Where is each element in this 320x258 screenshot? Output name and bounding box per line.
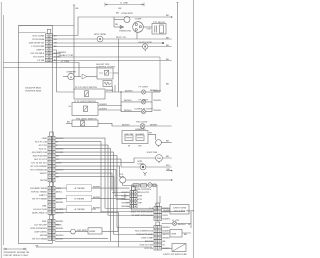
svg-text:BK/WH: BK/WH (163, 237, 171, 240)
svg-text:OFF RE MILS: OFF RE MILS (30, 52, 44, 55)
svg-text:BK/WH: BK/WH (122, 205, 130, 208)
svg-text:L-TOUS DRN: L-TOUS DRN (31, 45, 45, 48)
svg-text:ICE&WTR MCB: ICE&WTR MCB (25, 87, 41, 90)
svg-text:DI/TE: DI/TE (163, 214, 169, 217)
svg-text:BK/WH: BK/WH (150, 123, 158, 126)
svg-text:BK/WH: BK/WH (122, 198, 130, 201)
svg-text:AD1 RMTE DM: AD1 RMTE DM (32, 151, 47, 154)
svg-text:WH/TL: WH/TL (163, 233, 171, 236)
svg-text:+5 THERM: +5 THERM (74, 208, 85, 211)
svg-text:RD/WH: RD/WH (154, 89, 162, 92)
svg-text:EMPTY: EMPTY (37, 48, 45, 51)
svg-text:ACK R/DOWN: ACK R/DOWN (33, 155, 48, 158)
svg-text:RSS WTRSCRN: RSS WTRSCRN (31, 227, 48, 230)
svg-text:BK/WH: BK/WH (163, 226, 171, 229)
svg-text:DLY W DISP: DLY W DISP (34, 224, 47, 227)
svg-text:BU/WH: BU/WH (56, 212, 64, 215)
svg-text:MTR: MTR (172, 233, 177, 236)
svg-text:TW TS TSNSM: TW TS TSNSM (32, 238, 47, 241)
svg-text:TK1 GWTE: TK1 GWTE (33, 55, 45, 58)
svg-text:COMP: COMP (135, 18, 142, 21)
svg-text:RD: RD (115, 23, 119, 26)
svg-text:CAP: CAP (147, 28, 152, 31)
svg-text:MTRM: MTRM (40, 234, 47, 237)
svg-text:TGA GD TSNSE: TGA GD TSNSE (31, 191, 48, 194)
svg-text:CIRCUIT WHOLLY ONLY: CIRCUIT WHOLLY ONLY (4, 254, 29, 257)
svg-text:FAN: FAN (157, 157, 162, 160)
svg-text:SK/TM: SK/TM (40, 179, 47, 182)
svg-text:BU/WH: BU/WH (122, 195, 130, 198)
svg-text:BU/WH: BU/WH (163, 247, 171, 250)
svg-text:RHYMNE TMEM: RHYMNE TMEM (30, 187, 47, 190)
svg-text:DLH DC DHS: DLH DC DHS (33, 208, 47, 211)
svg-text:TO DISP WTR VALVE: TO DISP WTR VALVE (131, 214, 153, 217)
svg-text:BU/WH: BU/WH (122, 123, 130, 126)
svg-text:BU/WH: BU/WH (125, 89, 133, 92)
svg-text:BU/WH: BU/WH (56, 148, 64, 151)
svg-text:EVAP FAN: EVAP FAN (147, 151, 158, 154)
svg-text:RYS DRUM: RYS DRUM (33, 38, 45, 41)
svg-text:ICE: ICE (134, 184, 138, 187)
svg-text:RD/WH: RD/WH (154, 109, 162, 112)
svg-text:TO LT SYS: TO LT SYS (174, 210, 185, 213)
svg-text:ACT PT L/M: ACT PT L/M (35, 141, 47, 144)
svg-text:L1 LINE: L1 LINE (120, 2, 128, 5)
svg-text:ACX CL: ACX CL (39, 148, 48, 151)
svg-text:HI LIMIT: HI LIMIT (136, 133, 145, 136)
svg-text:W/CL: W/CL (56, 187, 62, 190)
svg-text:FRZ LIGHT: FRZ LIGHT (136, 121, 148, 124)
svg-text:ADJUST FRZ: ADJUST FRZ (96, 63, 110, 66)
svg-text:AUX L/WATER LN: AUX L/WATER LN (135, 230, 153, 233)
svg-text:RT1 GD RSNSE: RT1 GD RSNSE (31, 165, 48, 168)
svg-text:BU/WH: BU/WH (59, 51, 67, 54)
svg-text:HTR SW: HTR SW (144, 247, 154, 250)
svg-text:DEM LANCE S: DEM LANCE S (32, 212, 47, 215)
svg-text:FF LIGHT: FF LIGHT (139, 85, 149, 88)
svg-text:AD2 P2 L/TS: AD2 P2 L/TS (34, 158, 47, 161)
svg-text:BK/WH: BK/WH (56, 201, 64, 204)
svg-text:BK/WH: BK/WH (56, 227, 64, 230)
svg-text:LOWER FF LIGHT: LOWER FF LIGHT (134, 107, 153, 110)
svg-text:OVERLOAD: OVERLOAD (119, 30, 132, 33)
svg-text:BU/WH: BU/WH (124, 109, 132, 112)
svg-text:LE DM: LE DM (38, 59, 45, 62)
svg-text:COND MTR: COND MTR (121, 12, 133, 15)
svg-text:GWL: GWL (42, 220, 48, 223)
svg-text:DML: DML (42, 205, 47, 208)
svg-text:BU: BU (54, 34, 57, 37)
svg-text:DT1 DI WT VLV: DT1 DI WT VLV (31, 162, 47, 165)
svg-text:+5 THERM: +5 THERM (74, 187, 85, 190)
svg-text:BK/WH: BK/WH (93, 206, 101, 209)
svg-text:-5 THERM: -5 THERM (74, 198, 84, 201)
svg-text:DSN CHAR WT: DSN CHAR WT (29, 41, 45, 44)
svg-text:RD/WH: RD/WH (154, 99, 162, 102)
svg-text:MOLD HTR: MOLD HTR (138, 191, 150, 194)
svg-text:WH/BK: WH/BK (122, 202, 130, 205)
svg-text:BU/WH: BU/WH (124, 99, 132, 102)
svg-text:BU/WH: BU/WH (56, 169, 64, 172)
svg-text:RD: RD (54, 38, 58, 41)
svg-text:TW TP TSNSM: TW TP TSNSM (32, 198, 47, 201)
svg-text:WH/BK: WH/BK (56, 151, 64, 154)
svg-text:BK/WH: BK/WH (56, 238, 64, 241)
svg-text:BU/WH: BU/WH (56, 234, 64, 237)
svg-text:RAW WTR DISP: RAW WTR DISP (137, 233, 154, 236)
svg-text:BU/WH: BU/WH (56, 137, 64, 140)
svg-text:BU/WH: BU/WH (163, 218, 171, 221)
svg-text:DISP LAMP: DISP LAMP (141, 237, 153, 240)
svg-text:M: M (70, 76, 72, 79)
svg-text:WHT LTR: WHT LTR (116, 36, 126, 39)
svg-text:W/BK: W/BK (56, 224, 62, 227)
svg-text:RT2 STRSM DM: RT2 STRSM DM (30, 169, 47, 172)
svg-text:WD/TP: WD/TP (40, 172, 48, 175)
svg-text:S/WH: S/WH (56, 162, 62, 165)
svg-text:4 LINE CONTROL: 4 LINE CONTROL (134, 188, 153, 191)
svg-text:SHUT TO WTR VALVE: SHUT TO WTR VALVE (131, 211, 154, 214)
svg-text:WH: WH (166, 164, 170, 167)
svg-text:SCHEMATIC SHOWN ON: SCHEMATIC SHOWN ON (4, 251, 30, 254)
svg-text:BK/WH: BK/WH (56, 220, 64, 223)
svg-text:THP: THP (138, 202, 143, 205)
svg-text:BK/CL: BK/CL (56, 191, 63, 194)
svg-text:L/MK: L/MK (42, 137, 48, 140)
svg-text:ACT GD: ACT GD (39, 144, 48, 147)
svg-text:L1 LTR: L1 LTR (172, 219, 179, 222)
svg-text:CAVITY BT SWITCH BK: CAVITY BT SWITCH BK (163, 253, 187, 256)
svg-text:BK/WH: BK/WH (93, 196, 101, 199)
svg-text:FF LIGHT: FF LIGHT (139, 99, 149, 102)
svg-text:BR: BR (56, 176, 59, 179)
svg-text:BU/WH: BU/WH (100, 107, 108, 110)
svg-text:WH/BK: WH/BK (56, 208, 64, 211)
svg-text:BK/WH: BK/WH (122, 191, 130, 194)
svg-text:BK/WH: BK/WH (93, 185, 101, 188)
svg-text:BU/WH: BU/WH (163, 230, 171, 233)
svg-text:WT1 CONN: WT1 CONN (33, 34, 45, 37)
svg-text:EMPTY: EMPTY (39, 194, 47, 197)
svg-text:COND: COND (138, 162, 145, 165)
svg-text:BU/WH: BU/WH (100, 103, 108, 106)
svg-text:MOTOR: MOTOR (145, 240, 154, 243)
svg-text:MTR TERM: MTR TERM (94, 33, 106, 36)
svg-text:AUX ACT SW: AUX ACT SW (140, 244, 154, 247)
svg-text:HARN: HARN (89, 230, 96, 233)
svg-text:RD/WH: RD/WH (187, 210, 195, 213)
svg-text:WH/BK: WH/BK (163, 209, 171, 212)
svg-text:HTR: HTR (138, 198, 143, 201)
svg-text:CAVITY BTM: CAVITY BTM (173, 207, 186, 210)
svg-text:MTR: MTR (138, 195, 143, 198)
svg-text:WH: WH (167, 168, 171, 171)
svg-text:DISP LMP/D: DISP LMP/D (34, 231, 47, 234)
svg-text:WH/BK LT CM: WH/BK LT CM (59, 54, 73, 57)
svg-text:BU/CL: BU/CL (56, 198, 63, 201)
svg-text:CONTROL MCB: CONTROL MCB (25, 90, 42, 93)
